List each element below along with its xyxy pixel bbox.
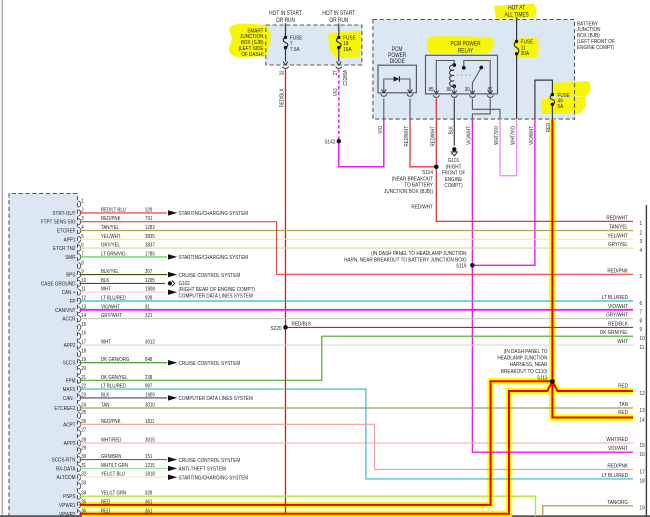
wire pin 24 TAN 3010 to right edge bbox=[80, 407, 634, 409]
node S220 bbox=[283, 325, 288, 330]
svg-text:BREAKOUT TO C110): BREAKOUT TO C110) bbox=[501, 368, 548, 375]
svg-text:5: 5 bbox=[640, 274, 643, 281]
wire pin 26 RED/PNK 1811 jog down to row 17 bbox=[80, 424, 634, 469]
svg-text:16: 16 bbox=[640, 452, 645, 459]
svg-text:GRY/WHT: GRY/WHT bbox=[606, 312, 629, 319]
wire relay 87 jog to VIO/WHT bbox=[472, 99, 490, 120]
svg-text:(IN DASH PANEL TO HEADLAMP JUN: (IN DASH PANEL TO HEADLAMP JUNCTION bbox=[371, 250, 467, 257]
svg-text:VIO/WHT: VIO/WHT bbox=[466, 126, 473, 145]
svg-text:329: 329 bbox=[145, 207, 153, 214]
svg-text:GRY/YEL: GRY/YEL bbox=[608, 242, 628, 249]
svg-text:COMPUTER DATA LINES SYSTEM: COMPUTER DATA LINES SYSTEM bbox=[179, 396, 253, 403]
svg-text:RED/WHT: RED/WHT bbox=[411, 204, 433, 211]
svg-text:(IN DASH PANEL TO: (IN DASH PANEL TO bbox=[504, 348, 548, 355]
wire fuse 11 down inside BJB bbox=[516, 54, 518, 119]
svg-text:S113: S113 bbox=[537, 375, 548, 382]
fuse 49 element bbox=[550, 93, 555, 106]
svg-text:30A: 30A bbox=[521, 51, 530, 58]
svg-text:1811: 1811 bbox=[145, 418, 155, 425]
svg-text:VPWR1: VPWR1 bbox=[59, 502, 76, 509]
svg-text:307: 307 bbox=[145, 269, 153, 276]
svg-text:YEL/LT BLU: YEL/LT BLU bbox=[101, 471, 125, 478]
svg-text:6: 6 bbox=[640, 300, 643, 307]
wire WHT/VIO fuse11 to U-turn bbox=[500, 119, 517, 176]
node S142 bbox=[337, 139, 341, 143]
svg-text:4: 4 bbox=[640, 247, 643, 254]
battery junction box BJB fill bbox=[373, 20, 575, 120]
svg-text:TAN/YEL: TAN/YEL bbox=[609, 224, 628, 231]
SJB pin 32 connector bbox=[283, 62, 288, 65]
relay coil to pin 86 bbox=[453, 86, 455, 94]
svg-text:3: 3 bbox=[640, 239, 643, 246]
svg-text:361: 361 bbox=[145, 499, 153, 506]
svg-text:15: 15 bbox=[81, 321, 86, 328]
svg-text:1215: 1215 bbox=[145, 462, 155, 469]
diode right pin wire to BJB edge bbox=[409, 99, 411, 120]
highlight fuse 18 bbox=[328, 31, 362, 59]
svg-text:3015: 3015 bbox=[145, 437, 155, 444]
relay coil circuit pin 85 bbox=[436, 61, 454, 94]
svg-text:COMPT): COMPT) bbox=[444, 183, 463, 190]
svg-text:3835: 3835 bbox=[145, 233, 155, 240]
right connector edge C175B bbox=[645, 205, 647, 517]
svg-text:RED: RED bbox=[618, 383, 628, 390]
svg-text:HOT IN START: HOT IN START bbox=[269, 11, 302, 18]
wire pin 32 YEL/LT BLU 1818 bbox=[80, 476, 168, 478]
svg-text:18: 18 bbox=[81, 348, 86, 355]
svg-text:CRUISE CONTROL SYSTEM: CRUISE CONTROL SYSTEM bbox=[179, 360, 241, 367]
svg-text:APP3: APP3 bbox=[64, 441, 76, 448]
svg-text:CRUISE CONTROL SYSTEM: CRUISE CONTROL SYSTEM bbox=[179, 457, 241, 464]
wire RED/BLK branch S220 to row 9 bbox=[286, 326, 634, 328]
svg-text:25: 25 bbox=[81, 410, 86, 417]
svg-text:3012: 3012 bbox=[145, 339, 155, 346]
fuse 18 element bbox=[337, 36, 342, 50]
wire pin 23 BLK 1909 bbox=[80, 397, 168, 399]
wire fuse18 to SJB exit pin 27 bbox=[338, 48, 340, 62]
svg-text:MAFS: MAFS bbox=[63, 387, 76, 394]
svg-text:32: 32 bbox=[279, 70, 286, 75]
svg-text:CAN +: CAN + bbox=[62, 290, 76, 297]
svg-text:S119: S119 bbox=[456, 263, 467, 270]
svg-text:17: 17 bbox=[640, 469, 645, 476]
svg-text:WHT/VIO: WHT/VIO bbox=[510, 126, 517, 145]
svg-text:FPM: FPM bbox=[66, 378, 76, 385]
relay switch blade pin 30 bbox=[472, 68, 481, 94]
wire pin 14 GRY/WHT 321 to right edge bbox=[80, 318, 634, 320]
svg-text:RED/BLK: RED/BLK bbox=[608, 321, 628, 328]
svg-text:ACCR: ACCR bbox=[62, 316, 75, 323]
wire pin 22 LT BLU/RED 987 jog down to row 18 bbox=[80, 389, 634, 479]
page left edge bbox=[1, 0, 3, 517]
svg-text:FP: FP bbox=[70, 299, 76, 306]
wire VIO dashed from fuse 18 to S142 bbox=[338, 69, 340, 141]
wire RED S113 to row 12 core bbox=[552, 382, 633, 392]
svg-text:10A: 10A bbox=[343, 46, 352, 53]
node S119 bbox=[470, 263, 475, 268]
diode symbol bbox=[394, 76, 400, 82]
svg-text:SMR: SMR bbox=[65, 254, 75, 261]
svg-text:ETCREF: ETCREF bbox=[57, 228, 76, 235]
svg-text:JUNCTION BOX (BJB)): JUNCTION BOX (BJB)) bbox=[384, 188, 433, 195]
wire pin 4 TAN/YEL 1283 to right edge bbox=[80, 230, 634, 232]
svg-text:DK GRN/ORG: DK GRN/ORG bbox=[101, 357, 129, 364]
wire fuse 49 feed U from VIO/WHT riser bbox=[535, 80, 553, 119]
wire fuse7 to SJB exit pin 32 bbox=[285, 48, 287, 62]
svg-text:15: 15 bbox=[640, 442, 645, 449]
svg-text:27: 27 bbox=[81, 427, 86, 434]
highlight aura fuse49 RED feed to S113 and row14 bbox=[552, 119, 633, 417]
svg-text:ETCR TN2: ETCR TN2 bbox=[53, 246, 76, 253]
svg-text:DK GRN/YEL: DK GRN/YEL bbox=[600, 330, 628, 337]
wire pin 7 LT GRN/VIO 1785 bbox=[80, 256, 168, 258]
svg-text:STARTING/CHARGING SYSTEM: STARTING/CHARGING SYSTEM bbox=[179, 211, 249, 218]
wire pin 19 DK GRN/ORG 848 bbox=[80, 362, 168, 364]
svg-text:YEL/LT GRN: YEL/LT GRN bbox=[101, 490, 127, 497]
svg-text:1205: 1205 bbox=[145, 277, 155, 284]
svg-text:18: 18 bbox=[640, 478, 645, 485]
svg-text:RED/PNK: RED/PNK bbox=[101, 418, 121, 425]
fuse 7 element bbox=[283, 36, 288, 50]
svg-text:TAN/YEL: TAN/YEL bbox=[101, 225, 119, 232]
svg-text:86: 86 bbox=[447, 87, 452, 94]
wire relay 30 jog to WHT/VIO bbox=[472, 99, 500, 120]
PCM connector pin brackets and numbers bbox=[78, 201, 81, 207]
svg-text:RED: RED bbox=[546, 123, 553, 133]
svg-text:RED/BLK: RED/BLK bbox=[279, 88, 286, 107]
svg-text:S142: S142 bbox=[324, 139, 335, 146]
svg-text:928: 928 bbox=[145, 295, 153, 302]
relay pin 86 connector bbox=[452, 91, 457, 94]
svg-text:PSPS: PSPS bbox=[63, 494, 76, 501]
svg-text:BLK: BLK bbox=[101, 392, 110, 399]
svg-text:1908: 1908 bbox=[145, 286, 155, 293]
svg-text:19: 19 bbox=[640, 505, 645, 512]
svg-text:33: 33 bbox=[81, 480, 86, 487]
svg-text:VIO/WHT: VIO/WHT bbox=[608, 446, 629, 453]
svg-text:848: 848 bbox=[145, 357, 153, 364]
PCM power relay box U1 bbox=[426, 55, 498, 94]
svg-text:8: 8 bbox=[81, 260, 84, 267]
svg-text:APP2: APP2 bbox=[64, 343, 76, 350]
svg-text:YEL/WHT: YEL/WHT bbox=[101, 233, 121, 240]
svg-text:ENGINE COMPT): ENGINE COMPT) bbox=[577, 44, 615, 51]
PCM connector box border bbox=[9, 194, 78, 517]
svg-text:SCCS: SCCS bbox=[63, 360, 76, 367]
relay pin 30 connector bbox=[470, 91, 475, 94]
svg-text:3010: 3010 bbox=[145, 402, 155, 409]
wire RED fuse 49 to S113 to row 14 core bbox=[552, 119, 633, 417]
svg-text:WHT/RED: WHT/RED bbox=[606, 437, 628, 444]
svg-text:30: 30 bbox=[465, 87, 470, 94]
wire pin 10 BLK 1205 to G102 bbox=[80, 282, 166, 284]
svg-text:HOT AT: HOT AT bbox=[508, 5, 525, 12]
BJB box border bbox=[373, 20, 575, 120]
bottom cropped BLK wire bbox=[0, 515, 650, 517]
highlight aura S113 to row12 RED bbox=[552, 382, 633, 392]
wire pin 28 WHT/RED 3015 to right edge bbox=[80, 442, 634, 444]
wire pin 17 WHT 3012 to right edge bbox=[80, 344, 634, 346]
svg-text:HEADLAMP JUNCTION: HEADLAMP JUNCTION bbox=[497, 355, 547, 362]
wire pin 11 WHT 1908 bbox=[80, 291, 168, 293]
relay fixed contact to pin 87 bbox=[464, 61, 490, 94]
svg-text:WHT: WHT bbox=[617, 339, 628, 346]
highlight PCM power relay label bbox=[427, 36, 495, 54]
wire BLK relay 86 to G101 bbox=[453, 99, 455, 146]
svg-text:RELAY: RELAY bbox=[458, 48, 474, 55]
svg-text:238: 238 bbox=[145, 374, 153, 381]
svg-text:LT GRN/VIO: LT GRN/VIO bbox=[101, 251, 126, 258]
wire pin 30 GRN/BRN 151 bbox=[80, 459, 168, 461]
svg-text:RED/WHT: RED/WHT bbox=[430, 126, 437, 146]
wire VIO from S142 U-turn up to PCM diode bbox=[339, 119, 384, 167]
svg-text:STARTING/CHARGING SYSTEM: STARTING/CHARGING SYSTEM bbox=[179, 255, 249, 262]
node S113 bbox=[550, 379, 555, 384]
svg-text:20: 20 bbox=[81, 366, 86, 373]
svg-text:WHT/RED: WHT/RED bbox=[101, 437, 122, 444]
relay linkage dashed bbox=[457, 74, 472, 76]
svg-text:RED/LT BLU: RED/LT BLU bbox=[101, 207, 126, 214]
svg-text:LT BLU/RED: LT BLU/RED bbox=[101, 383, 126, 390]
svg-text:RED/PNK: RED/PNK bbox=[607, 268, 628, 275]
relay pin 87 connector bbox=[488, 91, 493, 94]
svg-text:VIO/WHT: VIO/WHT bbox=[528, 126, 535, 145]
svg-text:85: 85 bbox=[429, 87, 434, 94]
svg-text:HOT IN START: HOT IN START bbox=[322, 11, 355, 18]
svg-text:RED/PNK: RED/PNK bbox=[607, 463, 628, 470]
svg-text:WHT/VIO: WHT/VIO bbox=[494, 126, 501, 145]
svg-text:BPS: BPS bbox=[66, 272, 76, 279]
svg-text:FTPT SENS SIG: FTPT SENS SIG bbox=[41, 219, 76, 226]
svg-text:RED/PNK: RED/PNK bbox=[101, 216, 121, 223]
ground G102 symbol bbox=[168, 281, 172, 285]
svg-text:LT BLU/RED: LT BLU/RED bbox=[101, 295, 126, 302]
svg-text:WHT: WHT bbox=[101, 339, 111, 346]
highlight aura VPWR1 RED wire bbox=[82, 381, 552, 505]
svg-text:LT BLU/RED: LT BLU/RED bbox=[602, 472, 629, 479]
wire RED/WHT diode output to S124 bbox=[410, 119, 436, 167]
wire pin 6 GRY/YEL 3837 to right edge bbox=[80, 247, 634, 249]
diode right pin connector bbox=[408, 89, 413, 92]
svg-text:GRY/YEL: GRY/YEL bbox=[101, 242, 120, 249]
svg-text:7.5A: 7.5A bbox=[290, 46, 300, 53]
svg-text:16: 16 bbox=[81, 330, 86, 337]
wire pin 21 DK GRN/YEL 238 jog up to row 10 bbox=[80, 336, 634, 380]
wire TAN/ORG row 19 from bottom bbox=[543, 506, 633, 516]
highlight SJB label bbox=[229, 24, 271, 58]
svg-text:13: 13 bbox=[640, 407, 645, 414]
wire feed to fuse 11 bbox=[516, 17, 518, 41]
svg-text:RED/WHT: RED/WHT bbox=[404, 126, 411, 146]
svg-text:RED: RED bbox=[101, 499, 111, 506]
svg-text:14: 14 bbox=[640, 417, 645, 424]
svg-text:1785: 1785 bbox=[145, 251, 155, 258]
svg-text:TAN: TAN bbox=[101, 402, 110, 409]
svg-text:VIO: VIO bbox=[377, 126, 384, 134]
svg-text:APP1: APP1 bbox=[64, 237, 76, 244]
svg-text:ETCREF2: ETCREF2 bbox=[54, 406, 75, 413]
svg-text:361: 361 bbox=[145, 508, 153, 515]
svg-text:ANTI-THEFT SYSTEM: ANTI-THEFT SYSTEM bbox=[179, 466, 226, 473]
wire pin 31 WHT/LT GRN 1215 bbox=[80, 467, 168, 469]
highlight fuse 49 upper bbox=[552, 81, 591, 97]
svg-text:CAN -: CAN - bbox=[63, 395, 76, 402]
svg-text:3837: 3837 bbox=[145, 242, 155, 249]
wire feed to fuse 7 bbox=[285, 23, 287, 37]
svg-text:STARTING/CHARGING SYSTEM: STARTING/CHARGING SYSTEM bbox=[179, 475, 249, 482]
svg-text:WHT/LT GRN: WHT/LT GRN bbox=[101, 462, 128, 469]
wire VIO/WHT relay 87 output down through S119 to row 16 bbox=[472, 119, 633, 452]
svg-text:TAN: TAN bbox=[619, 402, 628, 409]
wire feed to fuse 18 bbox=[338, 23, 340, 37]
svg-text:11: 11 bbox=[640, 344, 645, 351]
svg-text:1283: 1283 bbox=[145, 225, 155, 232]
svg-text:OR RUN: OR RUN bbox=[276, 17, 295, 24]
svg-text:5A: 5A bbox=[558, 104, 564, 111]
svg-text:HARN, NEAR BREAKOUT TO BATTERY: HARN, NEAR BREAKOUT TO BATTERY JUNCTION … bbox=[344, 257, 467, 264]
svg-text:PCM POWER: PCM POWER bbox=[450, 41, 480, 48]
svg-text:RED/WHT: RED/WHT bbox=[606, 215, 628, 222]
PCM connector box fill bbox=[9, 194, 78, 517]
highlight fuse 11 bbox=[514, 37, 539, 58]
SJB pin 27 connector bbox=[336, 62, 341, 65]
svg-text:1909: 1909 bbox=[145, 392, 155, 399]
diode left pin wire to BJB edge bbox=[383, 99, 385, 120]
wire pin 3 RED/PNK 791 jog down to row 5 bbox=[80, 222, 634, 275]
node S124 bbox=[434, 165, 439, 170]
svg-text:BLK: BLK bbox=[448, 125, 455, 134]
svg-text:STRT-OUT: STRT-OUT bbox=[52, 210, 76, 217]
highlight aura VPWR2 RED wire bbox=[82, 382, 552, 514]
svg-text:YEL/WHT: YEL/WHT bbox=[607, 233, 628, 240]
svg-text:CASE GROUND: CASE GROUND bbox=[41, 281, 76, 288]
svg-text:RED: RED bbox=[101, 508, 111, 515]
svg-text:10: 10 bbox=[640, 336, 645, 343]
wire RED/WHT relay 85 output through S124 to row 1 bbox=[436, 99, 633, 222]
svg-text:151: 151 bbox=[145, 454, 153, 461]
svg-text:OF DASH): OF DASH) bbox=[241, 51, 263, 58]
svg-text:27: 27 bbox=[332, 70, 339, 75]
fuse 11 element bbox=[514, 40, 519, 56]
svg-text:GRN/BRN: GRN/BRN bbox=[101, 454, 122, 461]
wire pin 34 YEL/LT GRN 328 jog down to bottom bbox=[80, 496, 536, 516]
wire VPWR2 RED 361 thick core bbox=[80, 382, 553, 514]
svg-text:8: 8 bbox=[640, 318, 643, 325]
svg-text:ACPT: ACPT bbox=[63, 422, 76, 429]
svg-text:12: 12 bbox=[640, 390, 645, 397]
svg-text:987: 987 bbox=[145, 383, 153, 390]
svg-text:RED: RED bbox=[618, 410, 628, 417]
svg-text:DIODE: DIODE bbox=[390, 59, 406, 66]
wire pin 12 LT BLU/RED 928 to right edge bbox=[80, 300, 634, 302]
svg-text:C2280A: C2280A bbox=[342, 69, 349, 85]
svg-text:RED/BLK: RED/BLK bbox=[292, 321, 312, 328]
svg-text:CRUISE CONTROL SYSTEM: CRUISE CONTROL SYSTEM bbox=[179, 272, 241, 279]
highlight fuse 49 lower bbox=[541, 97, 586, 115]
wire VIO/WHT from BJB down to S119 branch bbox=[472, 119, 535, 265]
wire RED/BLK from SJB fuse 7 down to pin36 row bbox=[285, 69, 287, 514]
svg-text:1818: 1818 bbox=[145, 471, 155, 478]
diode internal U with pins bbox=[384, 79, 410, 93]
wire fuse 49 output stub bbox=[551, 104, 553, 119]
svg-text:BLK/YEL: BLK/YEL bbox=[101, 269, 119, 276]
svg-text:S220: S220 bbox=[271, 326, 282, 333]
relay coil bbox=[452, 63, 456, 67]
svg-text:BLK: BLK bbox=[101, 277, 110, 284]
SJB box border bbox=[266, 25, 362, 65]
svg-text:ALTCOM: ALTCOM bbox=[57, 475, 76, 482]
svg-text:9: 9 bbox=[640, 327, 643, 334]
svg-text:ALL TIMES: ALL TIMES bbox=[504, 12, 529, 19]
svg-text:TAN/ORG: TAN/ORG bbox=[607, 499, 628, 506]
svg-text:COMPUTER DATA LINES SYSTEM: COMPUTER DATA LINES SYSTEM bbox=[179, 293, 253, 300]
svg-text:SCCS-RTN: SCCS-RTN bbox=[52, 457, 76, 464]
svg-text:321: 321 bbox=[145, 313, 153, 320]
svg-text:29: 29 bbox=[81, 445, 86, 452]
svg-text:328: 328 bbox=[145, 490, 153, 497]
svg-text:GRY/WHT: GRY/WHT bbox=[101, 313, 122, 320]
smart junction box SJB fill bbox=[266, 25, 362, 65]
svg-text:VIO/WHT: VIO/WHT bbox=[101, 304, 120, 311]
svg-text:1: 1 bbox=[81, 198, 84, 205]
svg-text:7: 7 bbox=[640, 309, 643, 316]
svg-text:791: 791 bbox=[145, 216, 153, 223]
wire pin 5 YEL/WHT 3835 to right edge bbox=[80, 238, 634, 240]
relay pin 85 connector bbox=[434, 91, 439, 94]
svg-text:1: 1 bbox=[640, 221, 643, 228]
svg-text:91: 91 bbox=[145, 304, 150, 311]
svg-text:VPWR2: VPWR2 bbox=[59, 511, 76, 517]
wire pin 9 BLK/YEL 307 bbox=[80, 274, 168, 276]
wire VPWR1 RED 361 thick core bbox=[80, 381, 553, 505]
ground G101 bbox=[452, 147, 456, 151]
svg-text:RX-DATA: RX-DATA bbox=[56, 466, 76, 473]
wire pin 13 VIO/WHT 91 to right edge bbox=[80, 309, 634, 311]
svg-text:CAN/VNT: CAN/VNT bbox=[55, 307, 76, 314]
wire pin 2 RED/LT BLU 329 bbox=[80, 212, 168, 214]
svg-text:DK GRN/YEL: DK GRN/YEL bbox=[101, 374, 128, 381]
svg-text:VIO: VIO bbox=[332, 88, 339, 96]
svg-text:WHT: WHT bbox=[101, 286, 111, 293]
svg-text:2: 2 bbox=[640, 230, 643, 237]
diode left pin connector bbox=[381, 89, 386, 92]
svg-text:VIO/WHT: VIO/WHT bbox=[608, 303, 629, 310]
PCM power diode box bbox=[378, 65, 416, 93]
svg-text:LT BLU/RED: LT BLU/RED bbox=[602, 295, 629, 302]
highlight hot at all times bbox=[494, 4, 537, 19]
svg-text:OR RUN: OR RUN bbox=[329, 17, 348, 24]
svg-text:HARNESS, NEAR: HARNESS, NEAR bbox=[510, 362, 548, 369]
